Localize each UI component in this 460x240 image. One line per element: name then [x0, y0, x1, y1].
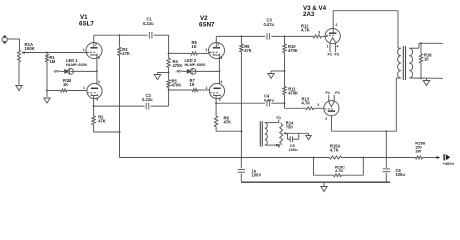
svg-text:4: 4 — [220, 80, 222, 84]
svg-text:2A3: 2A3 — [303, 11, 315, 18]
svg-text:6SN7: 6SN7 — [199, 21, 215, 28]
svg-text:47K: 47K — [122, 51, 130, 56]
svg-text:1: 1 — [205, 48, 207, 52]
svg-text:3: 3 — [96, 97, 98, 101]
svg-text:1: 1 — [83, 86, 85, 90]
svg-text:47K: 47K — [244, 48, 252, 53]
svg-text:4: 4 — [337, 45, 339, 49]
svg-text:0.47u: 0.47u — [264, 22, 275, 27]
svg-text:4.7K: 4.7K — [302, 100, 311, 105]
svg-text:47K: 47K — [98, 119, 106, 124]
svg-text:3: 3 — [220, 56, 222, 60]
svg-text:3: 3 — [317, 103, 319, 107]
svg-text:100K: 100K — [25, 46, 36, 51]
svg-text:100V: 100V — [252, 172, 262, 177]
svg-text:2: 2 — [95, 42, 97, 46]
svg-text:HLMP-6000: HLMP-6000 — [66, 62, 87, 67]
svg-text:2: 2 — [325, 117, 327, 121]
svg-text:1: 1 — [83, 48, 85, 52]
svg-text:4: 4 — [98, 80, 100, 84]
svg-text:470K: 470K — [288, 90, 298, 95]
svg-text:470K: 470K — [173, 63, 183, 68]
svg-text:3: 3 — [219, 97, 221, 101]
svg-text:4.7K: 4.7K — [301, 27, 310, 32]
svg-text:0.47u: 0.47u — [264, 97, 275, 102]
svg-text:10: 10 — [424, 56, 429, 61]
svg-text:100u: 100u — [396, 172, 406, 177]
svg-text:1W: 1W — [415, 148, 421, 153]
svg-text:0.22u: 0.22u — [143, 21, 154, 26]
svg-text:470K: 470K — [288, 48, 298, 53]
svg-text:2: 2 — [217, 42, 219, 46]
svg-text:47K: 47K — [224, 120, 232, 125]
svg-text:6SL7: 6SL7 — [79, 20, 94, 27]
svg-text:4.7K: 4.7K — [330, 148, 339, 153]
svg-text:1: 1 — [327, 45, 329, 49]
svg-text:1K: 1K — [190, 82, 195, 87]
svg-text:1K: 1K — [63, 82, 68, 87]
svg-text:+400V: +400V — [443, 161, 455, 166]
svg-text:1K: 1K — [192, 44, 197, 49]
svg-text:750: 750 — [286, 124, 294, 129]
svg-text:-9V: -9V — [53, 68, 60, 73]
svg-text:3: 3 — [98, 56, 100, 60]
svg-text:470K: 470K — [172, 82, 182, 87]
svg-text:-9V: -9V — [176, 68, 183, 73]
svg-text:100u: 100u — [289, 147, 298, 152]
svg-text:3: 3 — [318, 30, 320, 34]
svg-text:0.22u: 0.22u — [142, 97, 153, 102]
svg-text:1M: 1M — [50, 59, 56, 64]
svg-text:HLMP-6000: HLMP-6000 — [185, 62, 206, 67]
svg-text:2: 2 — [335, 23, 337, 27]
svg-text:4.7K: 4.7K — [335, 168, 343, 173]
